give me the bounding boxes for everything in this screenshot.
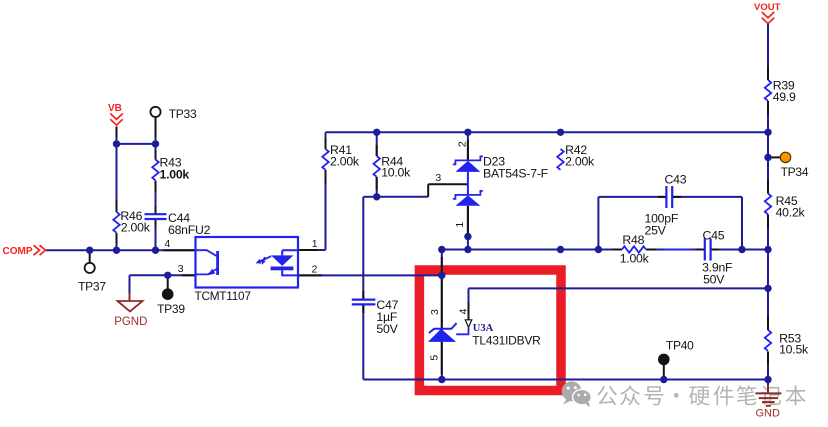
power flag VB <box>108 103 123 125</box>
svg-text:TP34: TP34 <box>781 165 809 179</box>
svg-text:TCMT1107: TCMT1107 <box>195 289 251 303</box>
resistor R44 10.0k <box>374 155 412 180</box>
junction at (560.5,132.3) <box>557 129 564 136</box>
test point TP37 <box>78 263 106 294</box>
wire right rail VOUT to R39 <box>767 24 769 81</box>
svg-text:40.2k: 40.2k <box>776 206 806 220</box>
junction at (768,288.4) <box>764 285 771 292</box>
pin 2 label of opto <box>312 263 318 275</box>
svg-text:3: 3 <box>178 263 184 275</box>
junction at (467.9,132.3) <box>464 129 471 136</box>
test point TP40 <box>658 338 694 365</box>
svg-text:TP40: TP40 <box>666 338 694 352</box>
test point TP39 <box>157 288 185 316</box>
junction at (441.8,249.5) <box>438 246 445 253</box>
resistor R39 49.9 <box>765 79 796 105</box>
resistor R46 2.00k <box>113 209 150 235</box>
junction at (441.8,379.5) <box>438 376 445 383</box>
opto-coupler phototransistor <box>197 250 218 275</box>
wire R46 branch <box>116 144 118 250</box>
svg-text:1: 1 <box>312 238 318 250</box>
wire D23 vertical <box>467 132 469 249</box>
wire TP33 stub <box>155 117 157 144</box>
opto-coupler LED <box>271 250 298 275</box>
label TL431IDBVR <box>472 333 541 347</box>
resistor R45 40.2k <box>765 194 806 220</box>
junction at (560.5,249.5) <box>557 246 564 253</box>
junction at (376.7,196.8) <box>373 193 380 200</box>
wire PGND drop <box>129 275 131 300</box>
wire ref row <box>469 287 769 289</box>
junction at (663.8,379.5) <box>660 376 667 383</box>
junction at (116.5,250.2) <box>113 247 120 254</box>
junction at (441.8,275.4) <box>438 272 445 279</box>
svg-text:BAT54S-7-F: BAT54S-7-F <box>483 166 549 180</box>
wire opto pin2 to U3A <box>299 274 442 276</box>
power flag VOUT <box>754 2 781 24</box>
pin 3 label of D23 <box>435 172 441 184</box>
capacitor C45 3.9nF 50V <box>702 229 733 287</box>
junction at (768,379.5) <box>764 376 771 383</box>
junction at (116.5,143.9) <box>113 140 120 147</box>
pin 1 label of D23 <box>454 222 466 228</box>
resistor R41 2.00k <box>322 143 360 170</box>
svg-text:10.0k: 10.0k <box>381 165 411 179</box>
test point TP33 <box>150 107 197 121</box>
svg-text:2: 2 <box>312 263 318 275</box>
resistor R48 1.00k <box>620 233 650 266</box>
pin 2 label of D23 <box>457 141 469 147</box>
svg-text:49.9: 49.9 <box>773 90 796 104</box>
junction at (89.7,250.2) <box>86 247 93 254</box>
junction at (742,249.5) <box>738 246 745 253</box>
wire mid row <box>442 249 768 251</box>
svg-text:VB: VB <box>108 103 122 114</box>
wire R44 to D23 pin3 <box>377 184 468 197</box>
svg-text:TP39: TP39 <box>157 302 185 316</box>
junction at (376.7,132.3) <box>373 129 380 136</box>
wire top rail <box>326 131 769 133</box>
wire TP39 stub <box>167 275 169 289</box>
svg-text:4: 4 <box>458 308 470 314</box>
wire bottom rail <box>363 379 768 381</box>
resistor R42 2.00k <box>557 143 595 170</box>
junction at (155.5,143.9) <box>152 140 159 147</box>
wire TP40 stub <box>663 365 665 380</box>
diode D23 BAT54S-7-F dual schottky <box>453 156 483 205</box>
junction at (467.9,249.5) <box>464 246 471 253</box>
opto-coupler light arrows <box>256 256 272 265</box>
svg-text:4: 4 <box>165 238 171 250</box>
watermark text 公众号·硬件笔记本 <box>597 385 805 405</box>
wire GND stub <box>767 380 769 394</box>
wire right rail R53 to bottom rail <box>767 352 769 380</box>
svg-text:2: 2 <box>457 141 469 147</box>
svg-text:5: 5 <box>428 355 440 361</box>
wire COMP line <box>46 249 196 251</box>
svg-text:25V: 25V <box>645 224 667 238</box>
svg-text:3: 3 <box>435 172 441 184</box>
svg-text:2.00k: 2.00k <box>121 221 151 235</box>
svg-text:1.00k: 1.00k <box>620 251 650 265</box>
svg-text:50V: 50V <box>703 273 725 287</box>
test point TP34 <box>780 152 809 179</box>
pin 1 label of opto <box>312 238 318 250</box>
svg-text:3: 3 <box>429 309 441 315</box>
wire R44 to C47 branch <box>363 197 376 380</box>
junction at (167.7,275.3) <box>164 272 171 279</box>
wire U3A riser <box>441 250 443 380</box>
capacitor C43 100pF 25V <box>645 172 687 237</box>
svg-text:10.5k: 10.5k <box>779 343 809 357</box>
red highlight box around U3A <box>419 270 561 391</box>
svg-text:R48: R48 <box>622 233 644 247</box>
junction at (768,157.4) <box>764 154 771 161</box>
wire right rail R39 to R45 <box>767 101 769 194</box>
svg-text:PGND: PGND <box>114 316 147 328</box>
junction at (155.5,250.2) <box>152 247 159 254</box>
label U3A <box>473 323 494 334</box>
svg-text:68nFU2: 68nFU2 <box>168 223 211 237</box>
wire VB to TP33 link <box>117 143 156 145</box>
svg-text:1.00k: 1.00k <box>160 168 190 182</box>
junction at (598.4,249.5) <box>595 246 602 253</box>
wire R43 C44 branch <box>155 144 157 250</box>
svg-text:TP33: TP33 <box>169 107 197 121</box>
wire R44 branch <box>376 132 378 197</box>
input port COMP <box>3 245 46 257</box>
svg-text:2.00k: 2.00k <box>565 154 595 168</box>
resistor R53 10.5k <box>765 330 809 357</box>
label TCMT1107 <box>195 289 251 303</box>
watermark wechat logo <box>562 381 592 407</box>
wire opto pin1 riser through R41 <box>299 132 326 250</box>
svg-text:C43: C43 <box>665 172 687 186</box>
wire right rail R45 to R53 <box>767 215 769 331</box>
junction at (768,132.3) <box>764 129 771 136</box>
svg-text:50V: 50V <box>376 322 398 336</box>
opto-coupler TCMT1107 box <box>196 237 299 288</box>
svg-text:VOUT: VOUT <box>754 2 781 13</box>
svg-text:2.00k: 2.00k <box>330 154 360 168</box>
wire TP37 stub <box>89 250 91 263</box>
capacitor C44 68nFU2 <box>145 211 211 237</box>
svg-text:1: 1 <box>454 222 466 228</box>
junction at (467.9,236.5) <box>464 233 471 240</box>
ground GND <box>755 393 781 419</box>
wire C43 loop <box>598 197 742 250</box>
pin 3 label of opto <box>178 263 184 275</box>
capacitor C47 1uF 50V <box>352 298 399 336</box>
pin 5 label of U3A <box>428 355 440 361</box>
pin 4 label of U3A <box>458 308 470 314</box>
label D23 BAT54S-7-F <box>483 155 549 181</box>
svg-text:GND: GND <box>756 408 781 420</box>
resistor R43 1.00k <box>152 156 189 182</box>
ground PGND <box>114 301 147 328</box>
pin 4 label of opto <box>165 238 171 250</box>
wire opto pin3 line <box>130 274 196 276</box>
svg-text:COMP: COMP <box>3 246 33 257</box>
wire VB stub <box>116 127 118 144</box>
wire U3A ref drop <box>468 288 470 319</box>
junction at (768,249.5) <box>764 246 771 253</box>
svg-text:C45: C45 <box>703 229 725 243</box>
pin 3 label of U3A <box>429 309 441 315</box>
svg-text:TP37: TP37 <box>78 280 106 294</box>
shunt regulator U3A TL431IDBVR <box>428 320 472 342</box>
svg-text:TL431IDBVR: TL431IDBVR <box>472 333 541 347</box>
wire TP34 stub <box>768 156 780 158</box>
